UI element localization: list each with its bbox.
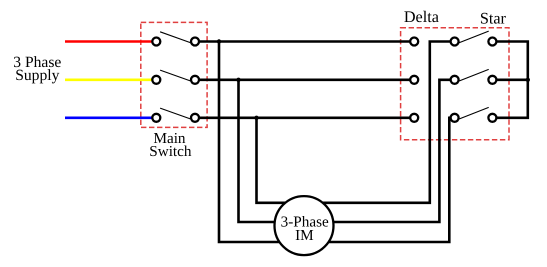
main switch pole 2 (L2) bbox=[152, 70, 199, 84]
wire L1 supply (red) bbox=[65, 40, 152, 43]
delta terminal 2 bbox=[410, 76, 418, 84]
svg-text:Switch: Switch bbox=[149, 143, 192, 160]
junction: L2 branch node bbox=[236, 78, 240, 82]
wire star pole 2 to star point bus bbox=[497, 79, 528, 82]
junction: L1 branch node bbox=[217, 39, 221, 43]
junction: star point node bbox=[526, 78, 530, 82]
label: 3 Phase Supply bbox=[13, 54, 61, 84]
delta terminal 1 bbox=[410, 38, 418, 46]
wire star point bus (pole 1 to pole 3) bbox=[497, 42, 528, 118]
star-delta switch enclosure (red dashed box) bbox=[401, 28, 509, 140]
svg-text:Supply: Supply bbox=[15, 67, 59, 84]
star switch pole 2 bbox=[451, 69, 497, 83]
main switch pole 3 (L3) bbox=[152, 108, 199, 122]
svg-text:Delta: Delta bbox=[404, 8, 439, 26]
wire L1 from main switch to delta terminal bbox=[200, 40, 410, 43]
main switch enclosure (red dashed box) bbox=[141, 22, 207, 127]
junction: L3 branch node bbox=[254, 116, 258, 120]
wire winding run B: L2 branch down, middle motor lead, up to star switch pole 2 bbox=[239, 80, 451, 222]
svg-text:IM: IM bbox=[295, 227, 314, 244]
delta terminal 3 bbox=[410, 114, 418, 122]
wire L3 from main switch to delta terminal bbox=[200, 117, 410, 120]
svg-text:Star: Star bbox=[480, 9, 507, 27]
motor M1: 3-phase induction motor bbox=[275, 196, 334, 255]
wire winding run C: L3 branch down, top motor lead, up to star switch pole 1 bbox=[257, 42, 451, 203]
wire L3 supply (blue) bbox=[65, 117, 152, 120]
label: Main Switch bbox=[149, 130, 192, 160]
star switch pole 3 bbox=[451, 107, 497, 121]
wire L2 from main switch to delta terminal bbox=[200, 79, 410, 82]
wire L2 supply (yellow) bbox=[65, 79, 152, 82]
star switch pole 1 bbox=[451, 31, 497, 45]
main switch pole 1 (L1) bbox=[152, 32, 199, 46]
wire winding run A: L1 branch down, bottom motor lead, up to star switch pole 3 bbox=[219, 42, 450, 243]
